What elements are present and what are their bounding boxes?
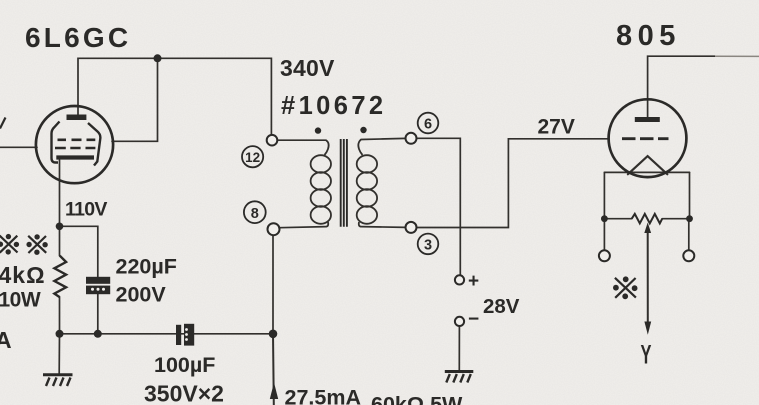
svg-text:340V: 340V (280, 55, 335, 81)
svg-text:60kΩ 5W: 60kΩ 5W (371, 393, 463, 405)
svg-text:A: A (0, 327, 12, 353)
svg-text:#10672: #10672 (281, 92, 387, 120)
svg-text:27V: 27V (538, 115, 575, 138)
svg-text:4kΩ: 4kΩ (0, 262, 46, 288)
svg-text:12: 12 (245, 150, 260, 165)
svg-text:110V: 110V (65, 198, 107, 220)
svg-text:+: + (468, 271, 479, 292)
svg-text:27.5mA: 27.5mA (285, 386, 362, 405)
svg-text:220µF: 220µF (116, 255, 177, 279)
svg-text:3: 3 (424, 238, 432, 254)
svg-text:−: − (468, 309, 479, 330)
svg-text:6L6GC: 6L6GC (25, 22, 131, 53)
svg-text:200V: 200V (116, 283, 167, 307)
svg-text:350V×2: 350V×2 (144, 381, 224, 405)
svg-text:805: 805 (616, 20, 681, 52)
svg-text:8: 8 (251, 206, 259, 222)
svg-text:10W: 10W (0, 289, 41, 312)
svg-text:28V: 28V (483, 295, 520, 318)
svg-text:Y: Y (641, 339, 652, 369)
svg-text:6: 6 (424, 117, 432, 133)
svg-text:100µF: 100µF (154, 353, 215, 377)
